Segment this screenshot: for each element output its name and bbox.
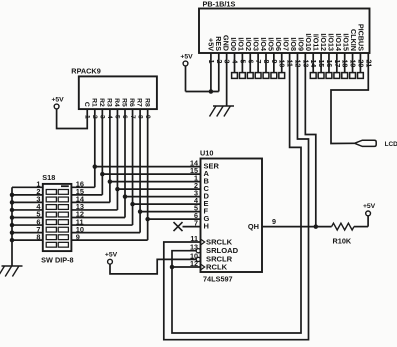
svg-text:R4: R4: [113, 98, 120, 107]
off-page connector LCD: [355, 140, 397, 148]
wire net SW1 to U10 SER: [95, 166, 201, 168]
wire net SW4: R4 pull-up vertical: [116, 109, 118, 210]
junction net SW1: [93, 164, 98, 169]
junction net SW7: [138, 209, 143, 214]
connector J1 pin name labels: [207, 24, 366, 51]
svg-text:R5: R5: [121, 98, 128, 107]
wire switch row 9 to net SW8: [71, 239, 147, 241]
wire net SW7 to U10 F: [140, 211, 200, 213]
+5V supply symbol at connector: [180, 53, 193, 66]
wire SRCLK (I/O9): U10 pin 11 around bottom to connector pin 12: [164, 53, 309, 340]
wire SRLOAD (I/O8): U10 pin 13 around bottom to connector pin 11: [172, 53, 301, 333]
svg-text:C: C: [83, 102, 90, 107]
junction net SW3: [108, 179, 113, 184]
svg-text:+5V: +5V: [105, 252, 118, 259]
wire net SW8 to U10 G: [148, 218, 201, 220]
junction SRLOAD/RCLK: [170, 265, 175, 270]
junctions on ground bus: [10, 193, 15, 243]
wire net SW5 to U10 D: [125, 196, 201, 198]
switch S18 SW DIP-8: [41, 173, 73, 265]
wire net SW8: R8 pull-up vertical: [147, 109, 149, 240]
wire switch row 11 to net SW6: [71, 224, 132, 226]
svg-text:R8: R8: [143, 98, 150, 107]
shift register U10 74LS597: [200, 149, 262, 284]
svg-text:R10K: R10K: [333, 237, 352, 246]
svg-text:+5V: +5V: [363, 203, 376, 210]
ground at switch bus: [0, 266, 23, 277]
U10 inversion bubbles on SRLOAD,SRCLR: [196, 249, 200, 262]
U10 control pin names: [206, 237, 239, 271]
svg-text:LCD: LCD: [385, 141, 397, 148]
wire net SW5: R5 pull-up vertical: [124, 109, 126, 217]
wire net SW3: R3 pull-up vertical: [109, 109, 111, 202]
svg-text:74LS597: 74LS597: [203, 275, 233, 284]
U10 input pin numbers: [190, 159, 198, 228]
svg-text:RCLK: RCLK: [206, 262, 228, 271]
svg-text:U10: U10: [200, 149, 213, 158]
wire switch row 13 to net SW4: [71, 209, 117, 211]
junction net SW4: [115, 187, 120, 192]
junction pin1 +5V: [209, 89, 214, 94]
wire PICBUS pin 21 to LCD: [331, 53, 368, 144]
wire R10K to +5V: [354, 216, 368, 227]
svg-text:+5V: +5V: [180, 53, 193, 60]
svg-text:SRLOAD: SRLOAD: [206, 246, 239, 255]
switch S18 elements: [46, 190, 68, 248]
junction net SW8: [145, 217, 150, 222]
svg-text:R3: R3: [106, 98, 113, 107]
svg-text:R2: R2: [98, 98, 105, 107]
wire switch row 16 to net SW1: [71, 186, 94, 188]
svg-text:R6: R6: [128, 98, 135, 107]
no-connect X on U10 pin H: [174, 222, 201, 231]
svg-text:QH: QH: [248, 222, 259, 231]
wire GND pin 3: [226, 53, 228, 106]
+5V supply symbol at R10K: [363, 203, 376, 216]
U10 input pin names SER,A-H: [204, 162, 220, 231]
svg-text:H: H: [204, 222, 209, 231]
wire switch row 12 to net SW5: [71, 217, 125, 219]
svg-text:SW DIP-8: SW DIP-8: [41, 256, 73, 265]
svg-text:SRCLK: SRCLK: [206, 237, 233, 246]
svg-text:R1: R1: [90, 98, 97, 107]
+5V supply symbol at SRCLR: [105, 252, 118, 265]
wire QH (I/O10): U10 pin 9 to connector pin 13: [262, 53, 332, 227]
junction net SW2: [100, 172, 105, 177]
switch S18 position-1 indicator: [61, 185, 69, 187]
switch S18 right pin numbers 16-9: [76, 180, 85, 242]
U10 output pin QH, pin 9: [248, 217, 276, 231]
svg-text:9: 9: [272, 217, 276, 226]
resistor pack RPACK9: [71, 66, 157, 109]
wire net SW1: R1 pull-up vertical: [94, 109, 96, 187]
wire RCLK joins SRLOAD net: [172, 266, 201, 268]
svg-text:+5V: +5V: [51, 96, 64, 103]
U10 clock wedges on SRCLK,RCLK: [201, 239, 205, 270]
ground at connector pin 3: [210, 106, 235, 117]
wire net SW6 to U10 E: [133, 203, 201, 205]
wire switch row 14 to net SW3: [71, 201, 110, 203]
wire net SW7: R7 pull-up vertical: [139, 109, 141, 233]
+5V supply symbol at RPACK9: [51, 96, 64, 109]
connector J1 PB-1B/1S: [199, 0, 370, 53]
wire net SW4 to U10 C: [117, 188, 200, 190]
RPACK9 pin name labels C,R1-R8: [83, 98, 150, 107]
U10 control pin numbers 11,13,10,12: [190, 234, 198, 268]
wire ground bus vertical: [11, 187, 13, 266]
wire net SW6: R6 pull-up vertical: [132, 109, 134, 225]
connector J1 pin numbers 1-21: [207, 60, 371, 68]
wire switch row 15 to net SW2: [71, 194, 102, 196]
wire switch left pins to ground bus: [12, 187, 43, 240]
svg-text:RPACK9: RPACK9: [71, 66, 100, 75]
wire net SW2: R2 pull-up vertical: [101, 109, 103, 195]
svg-text:S18: S18: [42, 173, 55, 182]
junction net SW5: [123, 194, 128, 199]
wire switch row 10 to net SW7: [71, 232, 140, 234]
junction QH / I-O10: [314, 224, 319, 229]
svg-text:8: 8: [36, 232, 40, 241]
junction net SW6: [130, 202, 135, 207]
resistor R10K pull-up on QH: [332, 223, 354, 245]
connector J1 unused pin stubs with pad squares: [232, 53, 364, 78]
wire net SW3 to U10 B: [110, 181, 201, 183]
wire net SW2 to U10 A: [102, 173, 200, 175]
switch S18 left pin numbers 1-8: [36, 180, 41, 242]
wire +5V to pins 1,2 (RES): [186, 53, 219, 92]
svg-text:PICBUS: PICBUS: [357, 24, 366, 51]
svg-text:9: 9: [76, 232, 80, 241]
svg-text:PB-1B/1S: PB-1B/1S: [203, 0, 236, 8]
wire +5V to RPACK9 common pin C: [57, 109, 88, 129]
svg-text:R7: R7: [136, 98, 143, 107]
wire +5V to SRCLR pin 10: [110, 259, 196, 274]
RPACK9 pin numbers 1-9: [83, 115, 150, 119]
